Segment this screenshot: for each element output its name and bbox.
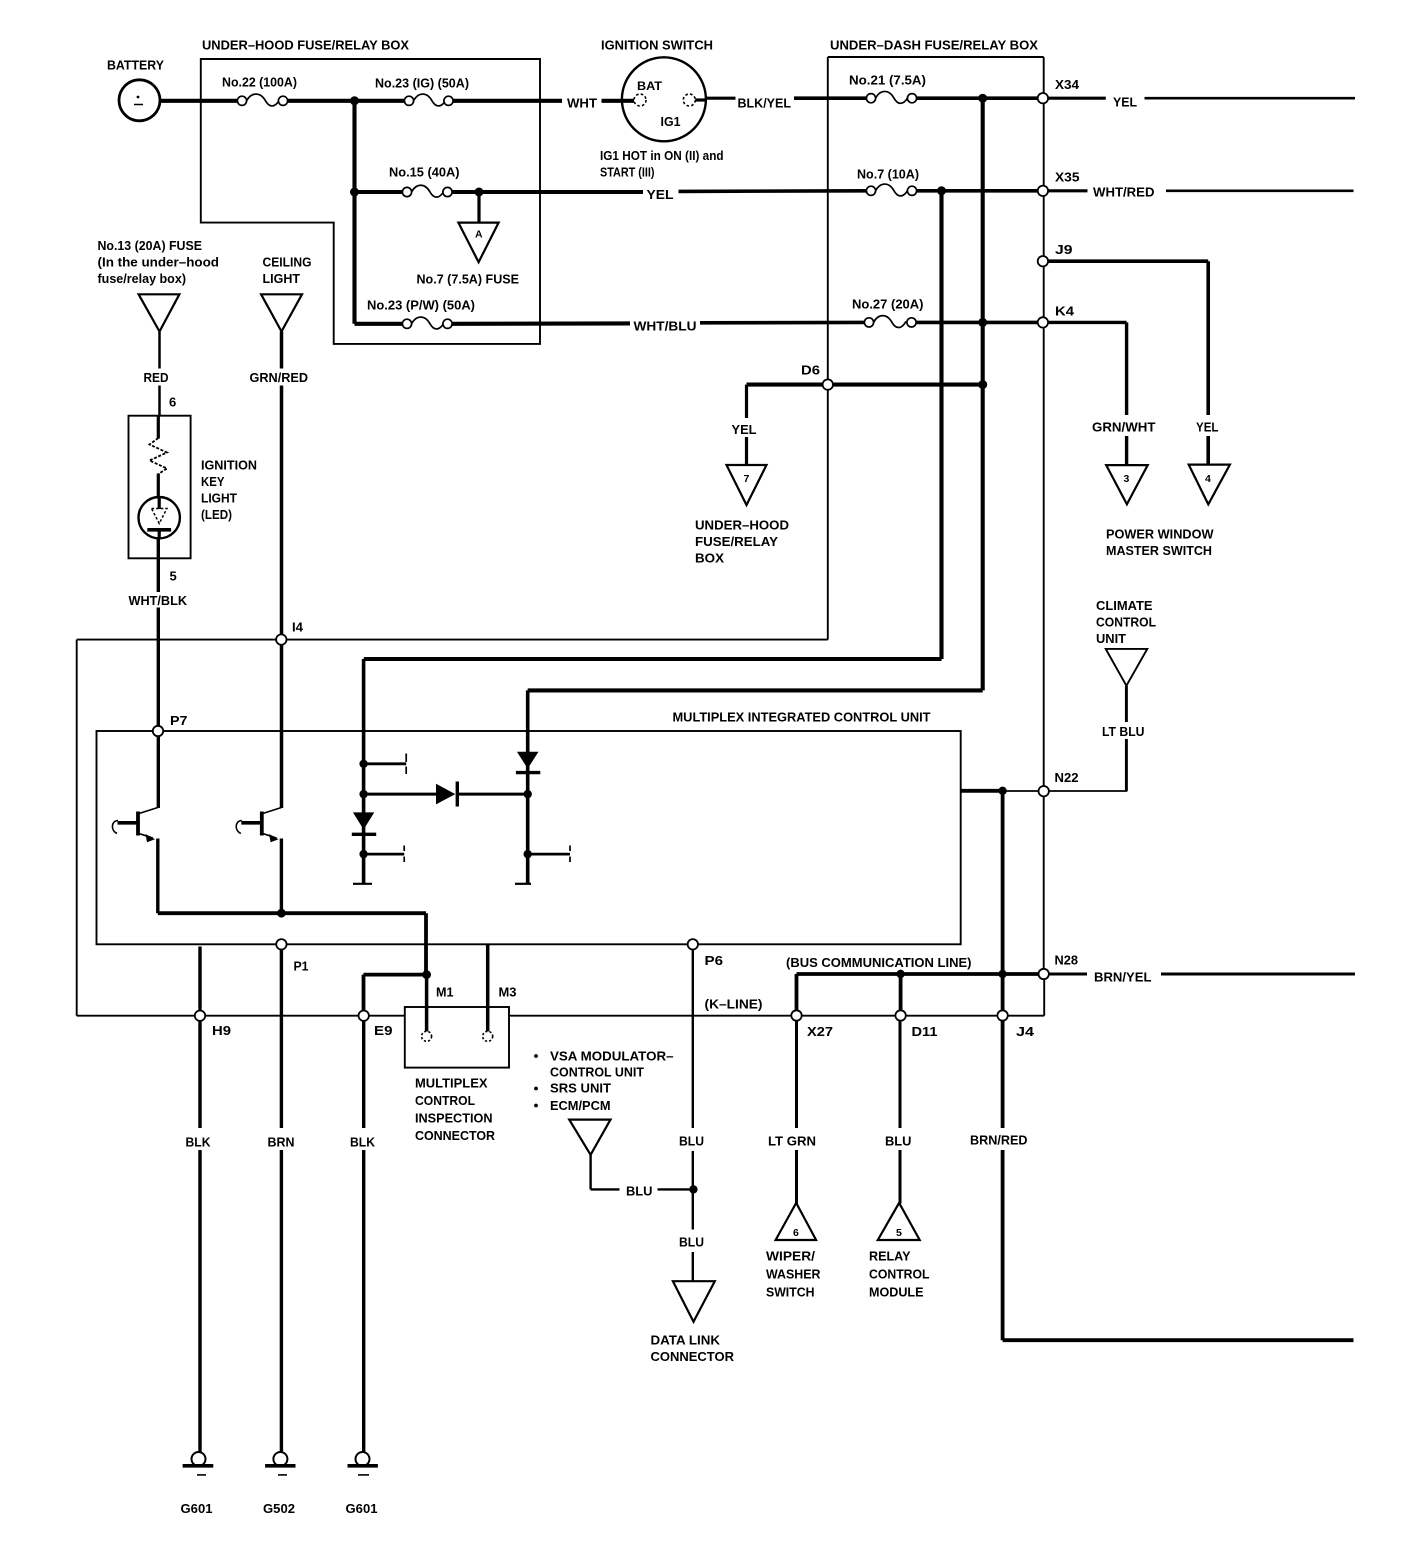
label (LED) — [201, 507, 232, 522]
svg-text:BLU: BLU — [679, 1235, 704, 1250]
wire BRN/YEL N28 to right edge — [1049, 973, 1355, 976]
label CLIMATE — [1096, 598, 1153, 613]
svg-text:No.23 (IG) (50A): No.23 (IG) (50A) — [375, 76, 469, 91]
label DATA LINK — [651, 1333, 721, 1348]
svg-text:RED: RED — [144, 370, 169, 385]
wire H9 E9 line — [77, 977, 1044, 1016]
ignition switch circle — [622, 57, 708, 141]
fuse No.22 symbol — [237, 94, 287, 106]
wire WHT/BLU fuse No.23(P/W) to fuse No.27 — [452, 322, 864, 323]
label GRN/RED — [250, 370, 309, 385]
svg-text:K4: K4 — [1055, 304, 1075, 319]
svg-text:BLU: BLU — [679, 1134, 704, 1149]
triangle No.13 fuse connector — [139, 294, 180, 331]
wire battery to fuse No.22 — [157, 99, 238, 103]
battery symbol — [119, 80, 160, 121]
svg-text:BLK/YEL: BLK/YEL — [738, 96, 792, 111]
svg-text:A: A — [475, 229, 483, 241]
svg-text:P7: P7 — [170, 713, 188, 728]
svg-text:BAT: BAT — [637, 81, 662, 93]
svg-text:N22: N22 — [1055, 770, 1079, 785]
svg-text:BRN: BRN — [268, 1135, 295, 1150]
wire YEL X34 to right edge — [1048, 97, 1355, 100]
wire E9 tap — [364, 975, 427, 1011]
label IGNITION SWITCH — [601, 38, 713, 53]
label WHT/BLU — [634, 319, 697, 334]
label fuse No.7 value — [857, 167, 919, 182]
svg-text:I4: I4 — [292, 620, 304, 635]
triangle number 5 — [896, 1227, 902, 1239]
svg-text:LIGHT: LIGHT — [201, 491, 237, 506]
label BLU horizontal — [626, 1184, 653, 1199]
svg-text:No.27 (20A): No.27 (20A) — [852, 297, 924, 312]
svg-text:MULTIPLEX INTEGRATED CONTROL U: MULTIPLEX INTEGRATED CONTROL UNIT — [673, 710, 931, 725]
svg-text:CONNECTOR: CONNECTOR — [415, 1128, 496, 1143]
ignition key light box — [129, 416, 191, 559]
label POWER WINDOW — [1106, 527, 1214, 542]
label CONNECTOR box — [415, 1128, 496, 1143]
wire fuse No.7 to X35 — [917, 189, 1039, 193]
svg-text:MULTIPLEX: MULTIPLEX — [415, 1076, 488, 1091]
junction node emitter join — [277, 909, 286, 918]
label X35 — [1055, 170, 1080, 185]
svg-text:No.7 (10A): No.7 (10A) — [857, 167, 919, 182]
junction nodes chain2 — [524, 790, 532, 858]
label KEY — [201, 474, 225, 489]
chain 2 bottom stub — [515, 883, 531, 885]
label BLU k-line lower — [679, 1235, 704, 1250]
label WHT/RED — [1093, 185, 1155, 200]
wire YEL J9 to power window master switch — [1048, 261, 1208, 465]
svg-text:G601: G601 — [346, 1501, 378, 1516]
label H9 — [212, 1023, 231, 1038]
fuse No.23(IG) symbol — [404, 94, 453, 106]
wire LT BLU N22 to climate control unit — [1049, 686, 1127, 791]
connector node D6 — [823, 379, 833, 389]
svg-text:WASHER: WASHER — [766, 1267, 821, 1282]
label No.13 fuse note line2 — [98, 255, 220, 270]
wire YEL fuse No.15 to fuse No.7 — [452, 191, 866, 192]
label IG1 terminal — [661, 114, 681, 129]
connector node I4 — [276, 634, 286, 644]
svg-text:G502: G502 — [263, 1501, 295, 1516]
svg-text:X34: X34 — [1055, 77, 1080, 92]
svg-text:BRN/RED: BRN/RED — [970, 1133, 1028, 1148]
wire BLK E9 to ground G601 — [362, 1021, 365, 1452]
fuse No.21 symbol — [866, 91, 916, 103]
bullet ECM — [534, 1104, 538, 1108]
svg-text:CONTROL UNIT: CONTROL UNIT — [550, 1065, 644, 1080]
resistor zigzag in key light — [150, 438, 168, 474]
junction node K4 row — [978, 318, 987, 327]
label No.13 fuse note line1 — [98, 238, 203, 253]
svg-text:GRN/RED: GRN/RED — [250, 370, 309, 385]
label CONTROL connector — [415, 1093, 475, 1108]
label J4 — [1016, 1024, 1035, 1039]
label fuse No.23(IG) value — [375, 76, 469, 91]
wire I4 line — [77, 639, 828, 641]
chain 2 lower stub — [528, 846, 570, 863]
label YEL top right — [1113, 95, 1137, 110]
svg-text:CLIMATE: CLIMATE — [1096, 598, 1153, 613]
label G502 — [263, 1501, 295, 1516]
label BLU d11 — [885, 1134, 912, 1149]
label WHT/BLK — [129, 593, 188, 608]
fuse No.23(P/W) symbol — [402, 317, 452, 329]
connector node K4 — [1038, 317, 1048, 327]
svg-text:ECM/PCM: ECM/PCM — [550, 1098, 611, 1113]
wire BRN/RED feed down to J4 and bottom right — [1003, 791, 1354, 1340]
triangle 5 connector — [878, 1203, 920, 1240]
wire WHT fuse No.23(IG) to ignition switch BAT — [453, 99, 635, 103]
junction node N22 branch — [998, 787, 1006, 795]
svg-text:(LED): (LED) — [201, 507, 232, 522]
label YEL mid — [647, 187, 674, 202]
svg-text:6: 6 — [793, 1227, 799, 1239]
diode D1 chain2 down — [516, 752, 540, 773]
chain 1 lower stub — [364, 846, 405, 863]
junction node battery feed — [350, 96, 359, 196]
label BUS COMMUNICATION LINE — [786, 955, 972, 970]
wire pin M1 — [425, 975, 429, 1032]
wire K-line P6 down — [692, 950, 694, 1282]
svg-text:YEL: YEL — [1196, 420, 1219, 435]
triangle VSA modulator connector — [569, 1120, 610, 1155]
svg-text:3: 3 — [1124, 473, 1130, 485]
svg-text:BLK: BLK — [186, 1135, 212, 1150]
wire internal chain 2 — [526, 690, 530, 883]
svg-text:IG1 HOT in ON (II) and: IG1 HOT in ON (II) and — [600, 148, 724, 163]
svg-text:G601: G601 — [181, 1501, 213, 1516]
label fuse No.22 value — [222, 75, 297, 90]
junction node BUS J4 — [998, 970, 1006, 978]
svg-text:D6: D6 — [801, 363, 820, 378]
triangle 3 connector — [1106, 465, 1148, 504]
triangle 4 connector — [1189, 465, 1230, 505]
svg-text:FUSE/RELAY: FUSE/RELAY — [695, 534, 778, 549]
connector node P6 — [688, 939, 698, 949]
label LIGHT key light — [201, 491, 237, 506]
svg-text:IG1: IG1 — [661, 114, 681, 129]
svg-text:(K–LINE): (K–LINE) — [705, 997, 763, 1012]
label CONTROL UNIT vsa — [550, 1065, 644, 1080]
pin number 5 key light — [170, 569, 177, 584]
wire diode D3 to chain 2 — [459, 793, 528, 796]
junction node No.21 output — [978, 94, 987, 103]
wire BLU D11 to relay control module — [899, 1021, 902, 1204]
svg-text:IGNITION SWITCH: IGNITION SWITCH — [601, 38, 713, 53]
label MULTIPLEX INTEGRATED CONTROL UNIT — [673, 710, 931, 725]
label IG1 HOT note line1 — [600, 148, 724, 163]
label G601 right — [346, 1501, 378, 1516]
ground G502 symbol — [265, 1452, 295, 1475]
under-dash fuse/relay box outline — [828, 57, 1044, 974]
label M1 — [436, 985, 454, 1000]
wire YEL to under-hood box triangle 7 — [745, 385, 748, 466]
svg-text:7: 7 — [744, 473, 750, 485]
svg-text:J4: J4 — [1016, 1024, 1035, 1039]
connector node N28 — [1039, 969, 1049, 979]
svg-text:CONNECTOR: CONNECTOR — [651, 1349, 735, 1364]
label IGNITION key light — [201, 458, 257, 473]
triangle data link connector — [673, 1281, 715, 1322]
label GRN/WHT — [1092, 420, 1156, 435]
wire main feed vertical — [352, 101, 356, 324]
svg-text:MASTER SWITCH: MASTER SWITCH — [1106, 543, 1212, 558]
bullet VSA — [534, 1054, 538, 1058]
svg-text:X27: X27 — [807, 1024, 833, 1039]
svg-text:H9: H9 — [212, 1023, 231, 1038]
triangle number 3 — [1124, 473, 1130, 485]
connector node X35 — [1038, 186, 1048, 196]
svg-text:J9: J9 — [1055, 242, 1073, 257]
svg-text:(In the under–hood: (In the under–hood — [98, 255, 220, 270]
label CONTROL relay — [869, 1267, 930, 1282]
svg-text:YEL: YEL — [1113, 95, 1137, 110]
triangle ceiling light connector — [261, 294, 302, 331]
svg-text:GRN/WHT: GRN/WHT — [1092, 420, 1156, 435]
diode D3 — [436, 782, 457, 807]
junction node No.7 output — [937, 186, 946, 195]
label LT GRN — [768, 1134, 816, 1149]
label ECM/PCM — [550, 1098, 611, 1113]
connector node J4 — [997, 1010, 1007, 1020]
svg-text:LIGHT: LIGHT — [263, 271, 301, 286]
label BATTERY — [107, 58, 164, 73]
svg-text:P1: P1 — [294, 959, 309, 974]
wire WHT/RED X35 to right edge — [1048, 189, 1353, 192]
wire to fuse No.15 — [355, 190, 403, 194]
label No.7 (7.5A) FUSE — [417, 272, 520, 287]
wire BUS communication line — [797, 974, 1039, 1011]
label LT BLU — [1102, 724, 1145, 739]
label MULTIPLEX connector — [415, 1076, 488, 1091]
svg-text:BLU: BLU — [885, 1134, 912, 1149]
ground G601 right symbol — [348, 1452, 378, 1475]
label D6 — [801, 363, 820, 378]
wire No.7 feed down to multiplex unit — [364, 191, 942, 659]
svg-text:M1: M1 — [436, 985, 454, 1000]
label SWITCH — [766, 1285, 815, 1300]
wire RED to ignition key light — [158, 332, 161, 416]
label fuse No.21 value — [849, 73, 926, 88]
triangle 6 connector — [776, 1203, 817, 1240]
svg-text:X35: X35 — [1055, 170, 1080, 185]
svg-text:No.7 (7.5A) FUSE: No.7 (7.5A) FUSE — [417, 272, 520, 287]
transistor Q2 — [236, 808, 281, 843]
triangle 7 connector — [727, 465, 767, 505]
wire WHT/BLK LED to P7 and transistor Q1 — [157, 538, 160, 808]
wire Q1 emitter run — [158, 839, 426, 975]
svg-text:UNDER–DASH FUSE/RELAY BOX: UNDER–DASH FUSE/RELAY BOX — [830, 38, 1038, 53]
label BRN/RED — [970, 1133, 1028, 1148]
label LIGHT ceiling — [263, 271, 301, 286]
wire tap to triangle A — [477, 192, 480, 224]
svg-text:No.15 (40A): No.15 (40A) — [389, 165, 460, 180]
triangle number 6 — [793, 1227, 799, 1239]
wire D6 row — [747, 383, 983, 387]
svg-text:CONTROL: CONTROL — [1096, 615, 1156, 630]
svg-text:BLU: BLU — [626, 1184, 653, 1199]
svg-text:INSPECTION: INSPECTION — [415, 1111, 493, 1126]
wire to fuse No.23(P/W) — [355, 322, 403, 326]
svg-text:UNDER–HOOD FUSE/RELAY BOX: UNDER–HOOD FUSE/RELAY BOX — [202, 38, 409, 53]
svg-text:N28: N28 — [1055, 953, 1079, 968]
label E9 — [374, 1023, 393, 1038]
connector node X27 — [791, 1010, 801, 1020]
chain 1 bottom stub — [353, 883, 372, 885]
svg-text:WIPER/: WIPER/ — [766, 1249, 815, 1264]
svg-text:D11: D11 — [912, 1024, 938, 1039]
label YEL triangle7 — [732, 422, 757, 437]
wire BLK H9 to ground G601 — [198, 947, 201, 1453]
wire fuse No.27 to K4 — [916, 321, 1039, 325]
svg-text:VSA MODULATOR–: VSA MODULATOR– — [550, 1049, 674, 1064]
connector node J9 — [1038, 256, 1048, 266]
ground G601 left symbol — [183, 1452, 214, 1475]
svg-text:LT GRN: LT GRN — [768, 1134, 816, 1149]
svg-text:M3: M3 — [499, 985, 517, 1000]
pin number 6 key light — [169, 395, 176, 410]
diode D2 chain1 down — [352, 812, 376, 834]
label N28 — [1055, 953, 1079, 968]
transistor Q1 — [112, 808, 157, 843]
svg-text:LT BLU: LT BLU — [1102, 724, 1145, 739]
svg-text:RELAY: RELAY — [869, 1249, 911, 1264]
label CONTROL climate — [1096, 615, 1156, 630]
label BLK left — [186, 1135, 212, 1150]
wire N22 from multiplex box — [961, 789, 1039, 793]
label under-dash box title — [830, 38, 1038, 53]
label WHT — [567, 96, 597, 111]
triangle number 7 — [744, 473, 750, 485]
svg-text:KEY: KEY — [201, 474, 225, 489]
svg-text:5: 5 — [896, 1227, 902, 1239]
label M3 — [499, 985, 517, 1000]
label BAT terminal — [637, 81, 662, 93]
label X34 — [1055, 77, 1080, 92]
label BLK/YEL — [738, 96, 792, 111]
label P7 — [170, 713, 188, 728]
wire internal chain 1 — [362, 659, 366, 884]
svg-text:No.13 (20A) FUSE: No.13 (20A) FUSE — [98, 238, 203, 253]
label X27 — [807, 1024, 833, 1039]
triangle number 4 — [1205, 473, 1211, 485]
svg-text:5: 5 — [170, 569, 177, 584]
pin M3 circle — [483, 1031, 493, 1041]
label BRN — [268, 1135, 295, 1150]
wire BLU VSA to K-line — [591, 1155, 691, 1190]
label MASTER SWITCH — [1106, 543, 1212, 558]
connector node E9 — [359, 1011, 369, 1021]
triangle letter A — [475, 229, 483, 241]
wire BLK/YEL ignition IG1 to fuse No.21 — [695, 97, 866, 100]
svg-text:No.23 (P/W) (50A): No.23 (P/W) (50A) — [367, 298, 475, 313]
svg-text:YEL: YEL — [732, 422, 757, 437]
label BLU k-line upper — [679, 1134, 704, 1149]
svg-text:BATTERY: BATTERY — [107, 58, 164, 73]
svg-text:P6: P6 — [705, 953, 724, 968]
label fuse No.15 value — [389, 165, 460, 180]
wire GRN/WHT K4 to power window master switch — [1048, 322, 1126, 466]
label WASHER — [766, 1267, 821, 1282]
svg-text:POWER WINDOW: POWER WINDOW — [1106, 527, 1214, 542]
svg-text:DATA LINK: DATA LINK — [651, 1333, 721, 1348]
triangle A connector — [458, 223, 498, 263]
svg-text:UNIT: UNIT — [1096, 631, 1126, 646]
label I4 — [292, 620, 304, 635]
under-hood fuse/relay box outline — [201, 59, 540, 344]
connector node D11 — [895, 1010, 905, 1020]
svg-text:YEL: YEL — [647, 187, 674, 202]
label K-LINE — [705, 997, 763, 1012]
bullet SRS — [534, 1087, 538, 1091]
chain 1 upper stub — [364, 754, 407, 775]
svg-text:IGNITION: IGNITION — [201, 458, 257, 473]
label fuse No.23(P/W) value — [367, 298, 475, 313]
multiplex control inspection connector box — [405, 1007, 509, 1068]
wire LT GRN X27 to wiper washer switch — [795, 1021, 798, 1204]
fuse No.7 symbol — [866, 184, 916, 196]
label UNDER-HOOD dest line1 — [695, 518, 789, 533]
wire left drop I4 to H9 — [76, 640, 78, 1016]
svg-text:(BUS COMMUNICATION LINE): (BUS COMMUNICATION LINE) — [786, 955, 972, 970]
label BRN/YEL — [1094, 970, 1152, 985]
label RELAY — [869, 1249, 911, 1264]
connector node H9 — [195, 1011, 205, 1021]
junction nodes chain1 — [359, 760, 367, 859]
wire fuse No.22 to fuse No.23(IG) via node — [288, 99, 405, 103]
svg-text:MODULE: MODULE — [869, 1285, 924, 1300]
svg-text:SWITCH: SWITCH — [766, 1285, 815, 1300]
wire No.21 feed down to multiplex unit — [528, 98, 983, 690]
label under-hood box title — [202, 38, 409, 53]
pin M1 circle — [422, 1031, 432, 1041]
svg-text:WHT/BLU: WHT/BLU — [634, 319, 697, 334]
connector node X34 — [1038, 93, 1048, 103]
svg-text:BRN/YEL: BRN/YEL — [1094, 970, 1152, 985]
label INSPECTION — [415, 1111, 493, 1126]
label N22 — [1055, 770, 1079, 785]
connector node N22 — [1039, 786, 1049, 796]
LED lamp circle — [139, 497, 180, 538]
label BLK mid — [350, 1135, 376, 1150]
label UNDER-HOOD dest line2 — [695, 534, 778, 549]
fuse No.27 symbol — [864, 316, 916, 328]
label CEILING — [263, 255, 312, 270]
label fuse No.27 value — [852, 297, 924, 312]
svg-text:WHT: WHT — [567, 96, 597, 111]
svg-text:4: 4 — [1205, 473, 1211, 485]
label P1 — [294, 959, 309, 974]
wire fuse No.21 to X34 — [917, 96, 1039, 100]
svg-text:CONTROL: CONTROL — [415, 1093, 475, 1108]
label UNDER-HOOD dest line3 — [695, 551, 724, 566]
wire GRN/RED ceiling light to I4 and transistor Q2 — [280, 332, 284, 809]
svg-text:WHT/RED: WHT/RED — [1093, 185, 1155, 200]
svg-text:fuse/relay box): fuse/relay box) — [98, 271, 187, 286]
junction node M1 tap — [422, 970, 431, 979]
junction node BUS D11 — [896, 970, 904, 978]
label RED — [144, 370, 169, 385]
label P6 — [705, 953, 724, 968]
label CONNECTOR dlc — [651, 1349, 735, 1364]
svg-text:BOX: BOX — [695, 551, 724, 566]
label SRS UNIT — [550, 1081, 611, 1096]
svg-text:BLK: BLK — [350, 1135, 376, 1150]
svg-text:CONTROL: CONTROL — [869, 1267, 930, 1282]
wire pin M3 — [486, 944, 490, 1031]
